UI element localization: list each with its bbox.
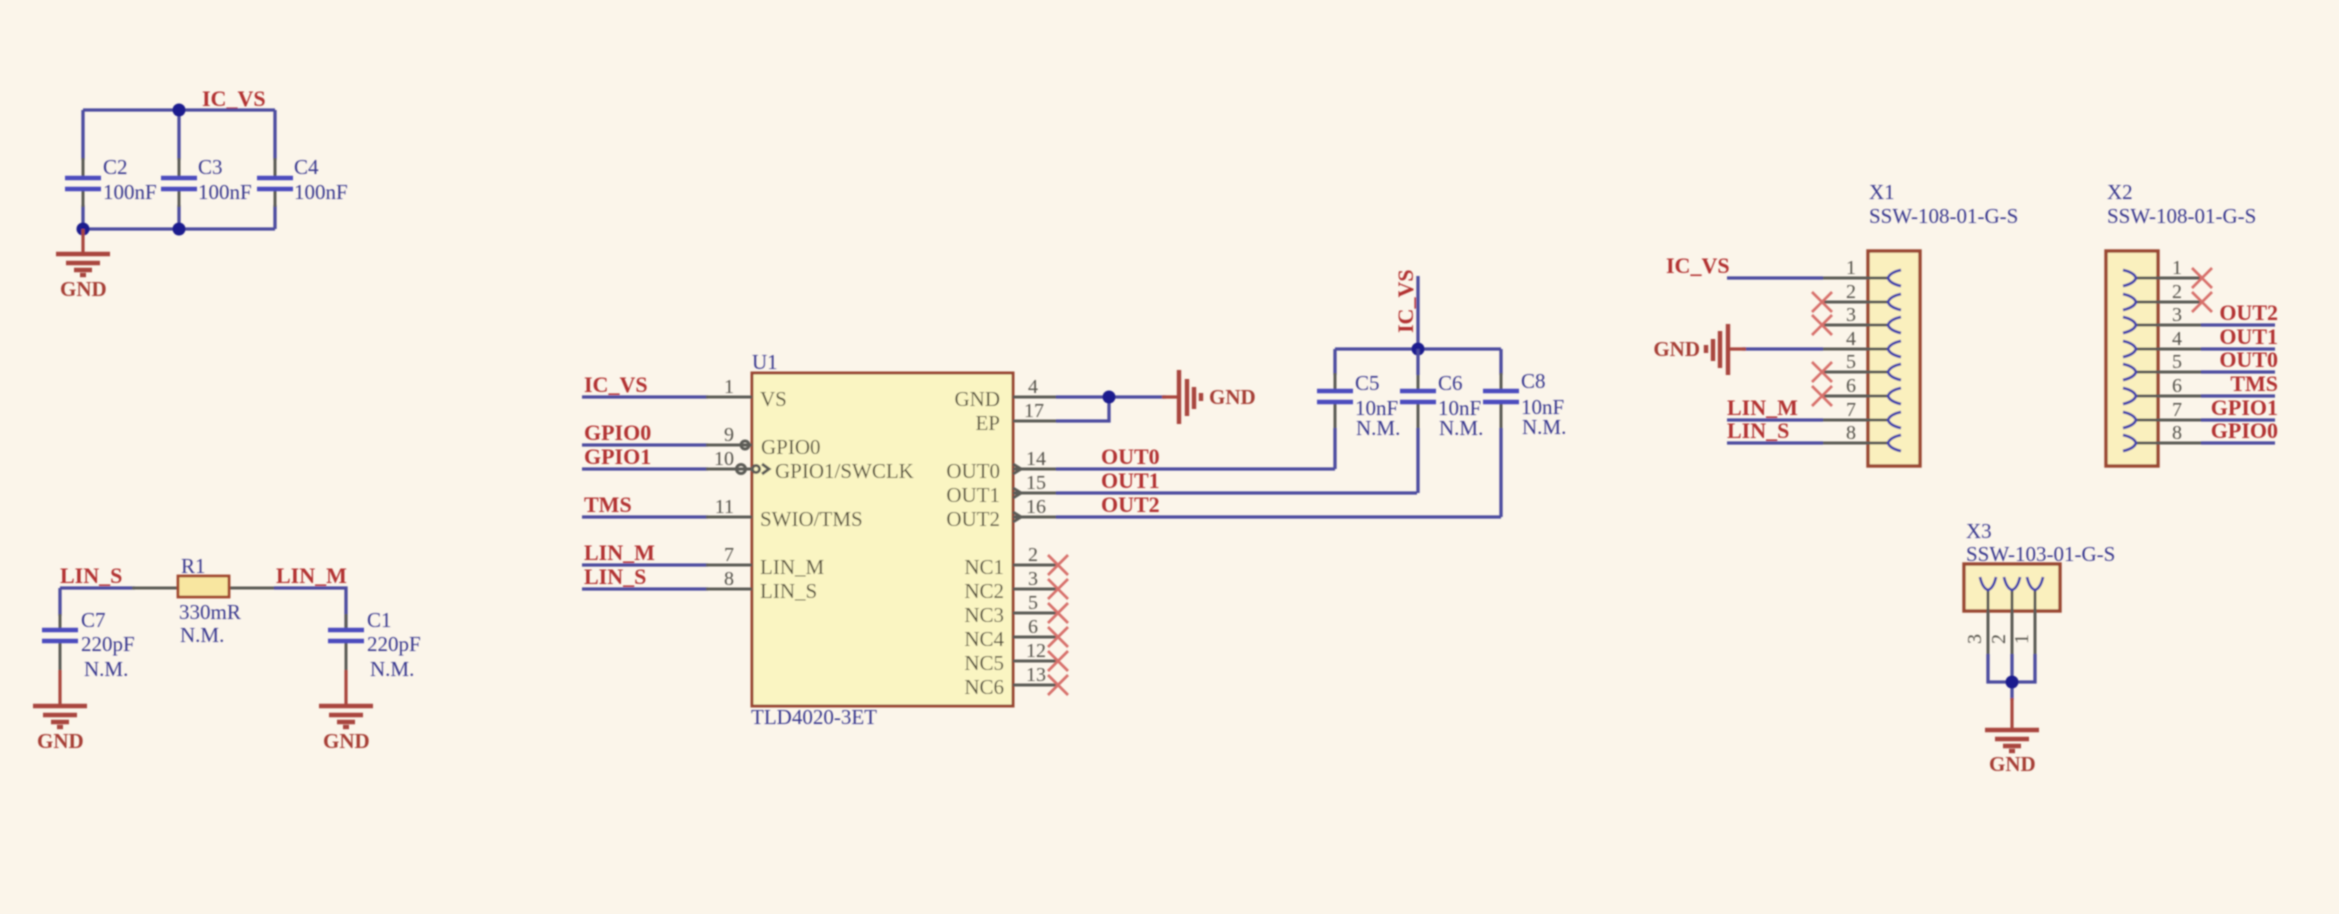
pin 13 NC6: [964, 664, 1068, 699]
X2 pin 4: [2123, 328, 2203, 357]
wire IC_VS to X1.1: [1727, 276, 1823, 279]
X2 pin 2: [2123, 281, 2212, 312]
svg-text:5: 5: [2172, 351, 2182, 373]
svg-text:3: 3: [1028, 568, 1038, 590]
junction cap rail: [1412, 343, 1425, 356]
wire GPIO1 to pin 10: [582, 467, 708, 470]
svg-text:IC_VS: IC_VS: [584, 372, 648, 397]
svg-text:GPIO0: GPIO0: [584, 420, 651, 445]
svg-text:LIN_S: LIN_S: [1727, 418, 1789, 443]
svg-text:OUT2: OUT2: [946, 507, 1000, 531]
ground below C7: [33, 670, 87, 753]
svg-text:X2: X2: [2107, 180, 2133, 204]
svg-text:NC3: NC3: [964, 603, 1004, 627]
wire left vertical bottom: [81, 205, 84, 229]
svg-text:SWIO/TMS: SWIO/TMS: [760, 507, 863, 531]
svg-text:4: 4: [2172, 328, 2182, 350]
svg-text:17: 17: [1024, 400, 1044, 422]
svg-text:2: 2: [1988, 634, 2010, 644]
svg-text:10: 10: [714, 448, 734, 470]
capacitor C7: [42, 588, 135, 681]
ground below cap bank: [56, 229, 110, 301]
svg-text:100nF: 100nF: [294, 180, 348, 204]
connector X3 SSW-103-01-G-S: [1964, 519, 2115, 611]
wire X2.3 OUT2: [2201, 323, 2275, 326]
svg-text:OUT1: OUT1: [1101, 468, 1160, 493]
svg-text:OUT0: OUT0: [1101, 444, 1160, 469]
X2 pin 3: [2123, 304, 2203, 333]
wire X2.7 GPIO1: [2201, 418, 2275, 421]
X3 pin 1: [1964, 577, 1996, 656]
ground at X1 pin 4: [1653, 324, 1746, 375]
svg-text:6: 6: [2172, 375, 2182, 397]
svg-text:6: 6: [1846, 375, 1856, 397]
pin 3 NC2: [964, 568, 1068, 603]
X1 pin 3: [1812, 304, 1901, 335]
junction bottom at C3: [173, 223, 186, 236]
svg-text:N.M.: N.M.: [1356, 416, 1400, 440]
svg-text:2: 2: [1846, 281, 1856, 303]
X2 pin 5: [2123, 351, 2203, 380]
svg-text:R1: R1: [181, 554, 206, 578]
wire LIN_M to X1.7: [1727, 418, 1823, 421]
resistor R1: [132, 554, 276, 647]
ground right of U1: [1162, 370, 1256, 424]
pin 7 LIN_M: [706, 544, 824, 579]
X3 pin 3: [2011, 577, 2043, 656]
X1 pin 4: [1821, 328, 1901, 357]
svg-text:1: 1: [1846, 257, 1856, 279]
svg-text:N.M.: N.M.: [1439, 416, 1483, 440]
ground below X3: [1985, 698, 2039, 776]
svg-text:1: 1: [2172, 257, 2182, 279]
svg-text:IC_VS: IC_VS: [1393, 269, 1418, 333]
svg-text:GND: GND: [1653, 337, 1700, 361]
wire mid vertical bottom: [177, 205, 180, 229]
svg-text:LIN_M: LIN_M: [760, 555, 824, 579]
svg-text:6: 6: [1028, 616, 1038, 638]
wire OUT1: [1056, 491, 1417, 494]
wire X3.1 to junction: [1988, 654, 2012, 682]
pin 1 VS: [706, 376, 787, 411]
wire left vertical: [81, 110, 84, 160]
wire TMS to pin 11: [582, 515, 708, 518]
svg-text:3: 3: [2172, 304, 2182, 326]
svg-text:100nF: 100nF: [103, 180, 157, 204]
svg-text:GND: GND: [1209, 385, 1256, 409]
svg-text:12: 12: [1026, 640, 1046, 662]
pin 10 GPIO1/SWCLK: [706, 448, 914, 483]
junction pin4 net: [1103, 391, 1116, 404]
wire pin4 to ground: [1056, 395, 1166, 398]
X2 pin 6: [2123, 375, 2203, 404]
svg-text:LIN_M: LIN_M: [584, 540, 655, 565]
svg-text:X1: X1: [1869, 180, 1895, 204]
pin 12 NC5: [964, 640, 1068, 675]
svg-text:X3: X3: [1966, 519, 1992, 543]
X1 pin 5: [1812, 351, 1901, 382]
svg-text:C8: C8: [1521, 369, 1546, 393]
svg-text:C2: C2: [103, 155, 128, 179]
wire GPIO0 to pin 9: [582, 443, 708, 446]
svg-text:3: 3: [1964, 634, 1986, 644]
svg-text:GPIO0: GPIO0: [2211, 418, 2278, 443]
svg-text:GND: GND: [1989, 752, 2036, 776]
pin 8 LIN_S: [706, 568, 817, 603]
svg-text:8: 8: [2172, 422, 2182, 444]
svg-text:2: 2: [1028, 544, 1038, 566]
junction top at C3: [173, 104, 186, 117]
svg-text:IC_VS: IC_VS: [202, 86, 266, 111]
svg-text:7: 7: [2172, 399, 2182, 421]
svg-text:16: 16: [1026, 496, 1046, 518]
svg-text:11: 11: [715, 496, 734, 518]
wire X2.6 TMS: [2201, 394, 2275, 397]
pin 16 OUT2: [946, 496, 1058, 531]
wire mid vertical top: [177, 110, 180, 160]
svg-text:1: 1: [724, 376, 734, 398]
svg-text:LIN_S: LIN_S: [584, 564, 646, 589]
svg-text:NC4: NC4: [964, 627, 1004, 651]
pin 17 EP: [975, 400, 1058, 435]
ground below C1: [319, 670, 373, 753]
connector X2 SSW-108-01-G-S: [2106, 180, 2256, 466]
svg-text:GPIO1: GPIO1: [2211, 395, 2278, 420]
svg-text:OUT1: OUT1: [946, 483, 1000, 507]
pin 11 SWIO/TMS: [706, 496, 863, 531]
X1 pin 1: [1821, 257, 1901, 286]
svg-text:5: 5: [1846, 351, 1856, 373]
pin 6 NC4: [964, 616, 1068, 651]
X2 pin 7: [2123, 399, 2203, 428]
svg-text:2: 2: [2172, 281, 2182, 303]
svg-text:330mR: 330mR: [179, 600, 241, 624]
svg-text:TMS: TMS: [2230, 371, 2278, 396]
X1 pin 7: [1821, 399, 1901, 428]
svg-text:C3: C3: [198, 155, 223, 179]
pin 4 GND: [955, 376, 1059, 411]
svg-text:GPIO1: GPIO1: [584, 444, 651, 469]
X1 pin 8: [1821, 422, 1901, 451]
svg-text:SSW-108-01-G-S: SSW-108-01-G-S: [1869, 204, 2018, 228]
svg-text:N.M.: N.M.: [84, 657, 128, 681]
svg-text:OUT2: OUT2: [1101, 492, 1160, 517]
svg-text:NC1: NC1: [964, 555, 1004, 579]
svg-text:N.M.: N.M.: [1522, 415, 1566, 439]
connector X1 SSW-108-01-G-S: [1868, 180, 2018, 466]
capacitor C4: [257, 155, 348, 207]
wire X3.3 to junction: [2012, 654, 2035, 682]
svg-text:7: 7: [1846, 399, 1856, 421]
svg-text:GND: GND: [955, 387, 1001, 411]
svg-text:VS: VS: [760, 387, 787, 411]
svg-text:IC_VS: IC_VS: [1666, 253, 1730, 278]
capacitor C6: [1400, 349, 1483, 493]
wire LIN_S to pin 8: [582, 587, 708, 590]
wire IC_VS to pin 1: [582, 395, 708, 398]
svg-text:8: 8: [1846, 422, 1856, 444]
wire OUT2: [1056, 515, 1501, 518]
wire R1 to C1: [274, 588, 346, 628]
wire X2.5 OUT0: [2201, 370, 2275, 373]
svg-text:N.M.: N.M.: [370, 657, 414, 681]
svg-text:GPIO1/SWCLK: GPIO1/SWCLK: [775, 459, 914, 483]
svg-text:7: 7: [724, 544, 734, 566]
svg-text:15: 15: [1026, 472, 1046, 494]
svg-text:C1: C1: [367, 608, 392, 632]
svg-text:5: 5: [1028, 592, 1038, 614]
wire LIN_S to X1.8: [1727, 441, 1823, 444]
svg-text:OUT0: OUT0: [946, 459, 1000, 483]
svg-text:C5: C5: [1355, 371, 1380, 395]
X2 pin 1: [2123, 257, 2212, 288]
svg-text:NC2: NC2: [964, 579, 1004, 603]
svg-text:GND: GND: [37, 729, 84, 753]
wire X2.4 OUT1: [2201, 347, 2275, 350]
pin 2 NC1: [964, 544, 1068, 579]
svg-text:C6: C6: [1438, 371, 1463, 395]
svg-text:4: 4: [1846, 328, 1856, 350]
svg-text:LIN_M: LIN_M: [1727, 395, 1798, 420]
svg-text:1: 1: [2011, 634, 2033, 644]
svg-text:NC6: NC6: [964, 675, 1004, 699]
svg-text:N.M.: N.M.: [180, 623, 224, 647]
svg-text:OUT2: OUT2: [2219, 300, 2278, 325]
svg-text:LIN_S: LIN_S: [760, 579, 817, 603]
pin 9 GPIO0: [706, 424, 821, 459]
wire LIN_M to pin 7: [582, 563, 708, 566]
svg-text:SSW-108-01-G-S: SSW-108-01-G-S: [2107, 204, 2256, 228]
capacitor C5: [1317, 349, 1400, 469]
svg-text:TMS: TMS: [584, 492, 632, 517]
svg-text:GND: GND: [323, 729, 370, 753]
op-amp U1 body TLD4020-3ET: [751, 350, 1013, 729]
capacitor C1: [328, 608, 421, 681]
X1 pin 2: [1812, 281, 1901, 312]
svg-text:TLD4020-3ET: TLD4020-3ET: [751, 705, 877, 729]
svg-text:OUT1: OUT1: [2219, 324, 2278, 349]
wire X2.8 GPIO0: [2201, 441, 2275, 444]
capacitor C2: [65, 155, 157, 207]
svg-text:100nF: 100nF: [198, 180, 252, 204]
junction bottom at C2: [77, 223, 90, 236]
wire right vertical bottom: [273, 205, 276, 229]
wire X3.2 down: [2010, 654, 2013, 700]
junction X3 ground net: [2006, 676, 2019, 689]
pin 5 NC3: [964, 592, 1068, 627]
svg-text:220pF: 220pF: [367, 632, 421, 656]
svg-text:C7: C7: [81, 608, 106, 632]
X1 pin 6: [1812, 375, 1901, 406]
svg-text:GND: GND: [60, 277, 107, 301]
svg-text:LIN_M: LIN_M: [276, 563, 347, 588]
svg-text:NC5: NC5: [964, 651, 1004, 675]
wire cap top rail: [1335, 347, 1501, 350]
svg-text:3: 3: [1846, 304, 1856, 326]
svg-text:GPIO0: GPIO0: [761, 435, 821, 459]
X2 pin 8: [2123, 422, 2203, 451]
pin 14 OUT0: [946, 448, 1058, 483]
wire GND to X1.4: [1742, 347, 1823, 350]
svg-text:8: 8: [724, 568, 734, 590]
svg-text:4: 4: [1028, 376, 1038, 398]
capacitor C8: [1483, 349, 1566, 517]
wire OUT0: [1056, 467, 1335, 470]
svg-text:LIN_S: LIN_S: [60, 563, 122, 588]
svg-text:13: 13: [1026, 664, 1046, 686]
svg-text:220pF: 220pF: [81, 632, 135, 656]
svg-text:EP: EP: [975, 411, 1000, 435]
wire GND bottom rail: [83, 227, 275, 230]
pin 15 OUT1: [946, 472, 1058, 507]
svg-text:OUT0: OUT0: [2219, 347, 2278, 372]
wire LIN_S to R1: [60, 586, 135, 589]
wire IC_VS drop: [1416, 276, 1419, 349]
svg-text:14: 14: [1026, 448, 1046, 470]
capacitor C3: [161, 155, 252, 207]
svg-text:U1: U1: [752, 350, 778, 374]
wire IC_VS top rail: [83, 108, 275, 111]
wire right vertical top: [273, 110, 276, 160]
X3 pin 2: [1988, 577, 2020, 656]
svg-text:C4: C4: [294, 155, 319, 179]
wire pin17 EP up to pin4 net: [1056, 397, 1109, 421]
svg-text:9: 9: [724, 424, 734, 446]
